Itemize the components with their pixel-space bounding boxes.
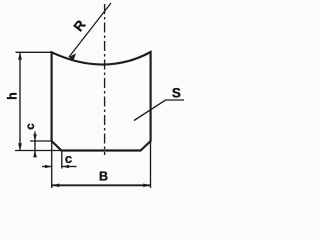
c vertical lower arrowhead	[33, 151, 37, 158]
centerline (vertical chain line)	[104, 4, 106, 155]
c horizontal right arrowhead	[62, 165, 69, 169]
dimension line h	[19, 52, 21, 150]
svg-text:h: h	[6, 92, 20, 100]
chamfer-corner extension line	[61, 151, 63, 169]
svg-text:S: S	[172, 86, 181, 101]
dimension line c (horizontal) right tail	[62, 166, 76, 168]
svg-text:B: B	[99, 169, 108, 183]
chamfer-top extension line	[30, 140, 52, 142]
h bottom arrowhead	[18, 143, 22, 150]
right extension line (right edge extended down)	[150, 141, 152, 188]
B right arrowhead	[143, 184, 150, 188]
svg-text:c: c	[25, 123, 37, 130]
left extension line (left edge extended down)	[51, 141, 53, 188]
c horizontal left arrowhead	[45, 165, 52, 169]
R leader line	[69, 3, 111, 57]
h top arrowhead	[18, 52, 22, 59]
S leader (horizontal bar + diagonal into part)	[134, 100, 184, 121]
dimension line c (horizontal, chamfer width) left tail	[42, 166, 52, 168]
bottom extension line (bottom edge extended left)	[15, 150, 62, 152]
c vertical upper arrowhead	[33, 134, 37, 141]
dimension line c (vertical, chamfer height)	[34, 132, 36, 158]
top extension line for h	[16, 51, 52, 53]
R leader arrowhead	[69, 53, 76, 60]
B left arrowhead	[52, 184, 59, 188]
dimension line B	[52, 184, 150, 186]
part outline: concave-top block with bottom chamfers	[52, 52, 151, 151]
svg-text:c: c	[65, 151, 72, 166]
